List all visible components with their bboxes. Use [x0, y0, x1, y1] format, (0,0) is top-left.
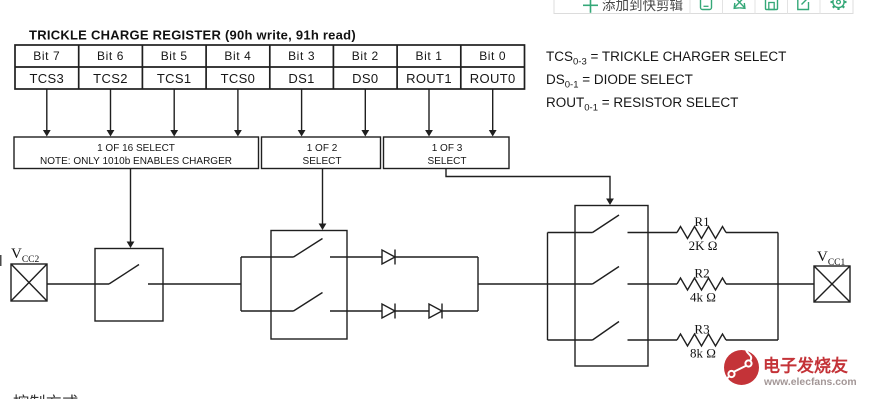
svg-text:1 OF 2: 1 OF 2: [307, 143, 338, 154]
wire decoder A to switch S1: [127, 169, 135, 249]
toolbar gear icon: [831, 0, 847, 10]
wire TCS1 bit-line arrow: [170, 89, 178, 137]
svg-text:TCS1: TCS1: [157, 71, 192, 86]
wire rail to S3a pole: [548, 232, 593, 234]
wire ROUT0 bit-line arrow: [489, 89, 497, 137]
svg-text:Bit 1: Bit 1: [415, 49, 442, 63]
svg-text:NOTE: ONLY 1010b ENABLES CHARG: NOTE: ONLY 1010b ENABLES CHARGER: [40, 156, 232, 167]
wire ROUT1 bit-line arrow: [425, 89, 433, 137]
svg-text:1 OF 3: 1 OF 3: [432, 143, 463, 154]
svg-text:VCC1: VCC1: [817, 249, 846, 268]
toolbar plus icon: [583, 0, 598, 13]
wire S2a contact to diode D1: [330, 256, 382, 258]
wire resistor R1 to right rail: [726, 232, 778, 234]
toolbar save icon: [766, 0, 778, 10]
svg-text:电子发烧友: 电子发烧友: [763, 356, 848, 376]
decoder box: 1 OF 2 SELECT: [262, 137, 381, 169]
switch box S2 (diode select): [271, 231, 347, 340]
browser toolbar overlay background: [554, 0, 853, 14]
svg-text:控制方式: 控制方式: [13, 394, 79, 399]
svg-text:TRICKLE CHARGE REGISTER (90h w: TRICKLE CHARGE REGISTER (90h write, 91h …: [29, 28, 356, 43]
svg-text:ROUT1: ROUT1: [406, 71, 452, 86]
wire D1 to rejoin node: [395, 256, 478, 258]
node rail left of S3: [547, 233, 549, 341]
wire top branch to S2a pole: [241, 256, 294, 258]
svg-text:ROUT0-1 = RESISTOR SELECT: ROUT0-1 = RESISTOR SELECT: [546, 95, 738, 114]
switch blade S2a: [294, 239, 323, 258]
svg-text:Bit 4: Bit 4: [224, 49, 251, 63]
svg-text:TCS2: TCS2: [93, 71, 128, 86]
svg-text:8k Ω: 8k Ω: [690, 346, 716, 361]
wire S1 contact to node split: [148, 283, 241, 285]
svg-text:Bit 0: Bit 0: [479, 49, 506, 63]
wire D2 to D3: [395, 310, 429, 312]
switch box S3 (resistor select): [575, 206, 648, 367]
svg-text:R1: R1: [694, 214, 709, 229]
wire rail to S3c pole: [548, 339, 593, 341]
switch blade S3b: [593, 267, 620, 285]
power symbol VCC2: [11, 264, 47, 301]
svg-text:2K Ω: 2K Ω: [689, 238, 718, 253]
wire VCC2 to switch S1 pole: [47, 283, 109, 285]
node rejoin of diode branches: [477, 257, 479, 311]
svg-text:ROUT0: ROUT0: [470, 71, 516, 86]
svg-text:Bit 5: Bit 5: [161, 49, 188, 63]
wire S3 contact to resistor R1: [628, 232, 678, 234]
svg-text:DS1: DS1: [288, 71, 314, 86]
wire TCS0 bit-line arrow: [234, 89, 242, 137]
wire TCS2 bit-line arrow: [107, 89, 115, 137]
svg-text:4k Ω: 4k Ω: [690, 290, 716, 305]
toolbar expand icon: [734, 0, 745, 8]
svg-text:DS0-1 = DIODE SELECT: DS0-1 = DIODE SELECT: [546, 72, 693, 91]
wire bottom branch to S2b pole: [241, 310, 294, 312]
svg-text:R2: R2: [694, 266, 709, 281]
wire S3 contact to resistor R2: [628, 283, 678, 285]
switch blade S3c: [593, 322, 620, 341]
switch blade S2b: [294, 293, 323, 312]
node split to diode branches: [240, 257, 242, 311]
wire rail to VCC1: [778, 283, 814, 285]
svg-text:DS0: DS0: [352, 71, 378, 86]
svg-text:SELECT: SELECT: [428, 156, 467, 167]
svg-text:TCS0: TCS0: [221, 71, 256, 86]
wire TCS3 bit-line arrow: [43, 89, 51, 137]
decoder box: 1 OF 3 SELECT: [384, 137, 510, 169]
resistor R2: [677, 278, 726, 290]
svg-text:Bit 7: Bit 7: [33, 49, 60, 63]
wire decoder C to switch box S3 (L-shaped): [446, 169, 614, 206]
wire rail to S3b pole: [548, 283, 593, 285]
diode D2 (bottom branch first): [382, 304, 395, 319]
wire decoder B to switch box S2: [319, 169, 327, 231]
svg-text:TCS3: TCS3: [29, 71, 64, 86]
power symbol VCC1: [814, 266, 850, 302]
switch box S1 (1-of-16 enable): [95, 249, 163, 322]
toolbar share icon: [798, 0, 809, 10]
watermark logo disc: [724, 345, 759, 385]
switch blade S1: [109, 265, 139, 285]
wire S2b contact to diode D2: [330, 310, 382, 312]
svg-text:R3: R3: [694, 322, 709, 337]
svg-text:www.elecfans.com: www.elecfans.com: [763, 377, 857, 388]
resistor R1: [677, 227, 726, 239]
wire S3 contact to resistor R3: [628, 339, 678, 341]
wire resistor R2 to right rail: [726, 283, 778, 285]
svg-text:SELECT: SELECT: [303, 156, 342, 167]
wire resistor R3 to right rail: [726, 339, 778, 341]
switch blade S3a: [593, 215, 620, 233]
svg-text:添加到快剪辑: 添加到快剪辑: [602, 0, 683, 13]
wire rejoin node to S3 rail: [478, 283, 548, 285]
node rail right of resistors: [777, 233, 779, 341]
diode D1 (top branch): [382, 250, 395, 265]
register table (Bit7..Bit0 / TCS3..ROUT0): [15, 45, 525, 89]
resistor R3: [677, 334, 726, 346]
svg-text:1 OF 16 SELECT: 1 OF 16 SELECT: [97, 143, 175, 154]
svg-text:VCC2: VCC2: [11, 246, 40, 265]
toolbar phone icon: [701, 0, 712, 10]
svg-text:Bit 2: Bit 2: [352, 49, 379, 63]
cut-off glyph at left image edge: [0, 255, 2, 266]
wire D3 to rejoin node: [442, 310, 478, 312]
diode D3 (bottom branch second): [429, 304, 442, 319]
svg-text:Bit 3: Bit 3: [288, 49, 315, 63]
decoder box: 1 OF 16 SELECT: [14, 137, 259, 169]
wire DS0 bit-line arrow: [361, 89, 369, 137]
svg-text:TCS0-3 = TRICKLE CHARGER SELEC: TCS0-3 = TRICKLE CHARGER SELECT: [546, 49, 786, 68]
svg-text:Bit 6: Bit 6: [97, 49, 124, 63]
wire DS1 bit-line arrow: [298, 89, 306, 137]
